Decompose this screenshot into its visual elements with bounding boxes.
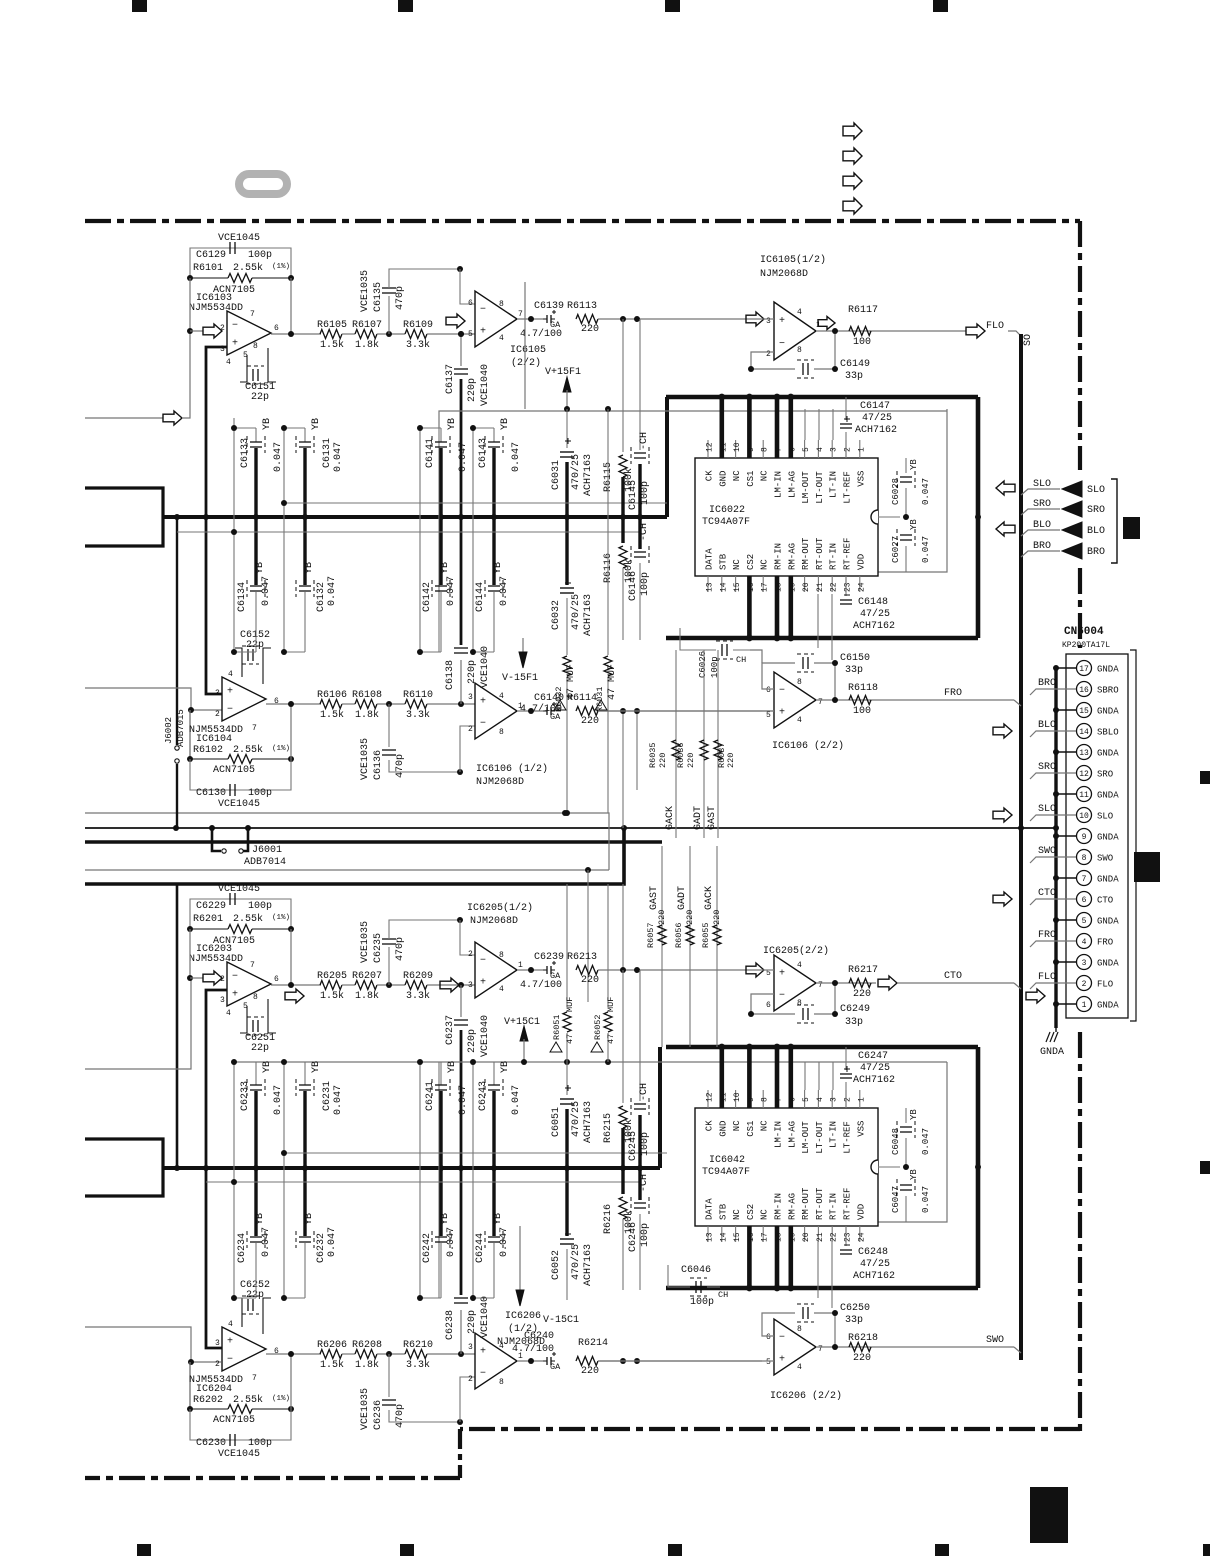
svg-text:0.047: 0.047 [273,1085,284,1115]
svg-text:6: 6 [274,324,279,333]
svg-text:IC6204: IC6204 [196,1384,232,1395]
cap C6047 YB [900,1184,912,1186]
cap C6144 [492,517,495,585]
svg-text:BRO: BRO [1033,541,1051,552]
svg-text:R6214: R6214 [578,1338,608,1349]
svg-text:4: 4 [797,1363,802,1372]
svg-text:GACK: GACK [665,806,676,830]
resistor R6206 [320,1350,342,1359]
svg-text:IC6205(1/2): IC6205(1/2) [467,902,533,914]
svg-text:1.8k: 1.8k [355,1359,379,1371]
svg-text:(1%): (1%) [272,1395,290,1403]
svg-text:4: 4 [816,1097,825,1102]
svg-text:47: 47 [606,1034,616,1044]
svg-text:33p: 33p [845,371,863,382]
svg-text:2: 2 [844,447,853,452]
svg-text:220: 220 [581,1366,599,1377]
svg-text:C6047: C6047 [891,1186,901,1213]
svg-text:47 MUF: 47 MUF [607,664,618,700]
svg-text:+: + [779,968,785,979]
cap C6241 [420,1061,441,1063]
net GACK lower [716,846,718,1047]
bus mid y828 [85,827,1056,829]
svg-text:2: 2 [220,324,225,333]
svg-text:−: − [480,1369,486,1380]
rail y409 upper [439,411,947,428]
resistor R6055 220 [713,925,721,945]
svg-text:18: 18 [775,1232,784,1242]
feedback C6249 [751,994,795,1014]
svg-text:21: 21 [816,582,825,592]
resistor R6205 [320,981,342,990]
svg-text:2: 2 [220,975,225,984]
svg-text:18: 18 [775,582,784,592]
op-amp IC6105 2/2 [475,291,517,347]
svg-text:GA: GA [550,320,561,330]
svg-text:C6130: C6130 [196,788,226,799]
svg-text:2: 2 [468,1375,473,1384]
svg-text:V-15C1: V-15C1 [543,1315,579,1326]
cap C6031 electrolytic [566,409,568,448]
svg-text:C6243: C6243 [478,1081,489,1111]
svg-text:16: 16 [1079,686,1089,695]
svg-text:SWO: SWO [986,1335,1004,1346]
svg-text:LT-REF: LT-REF [843,1121,853,1153]
svg-text:GA: GA [550,971,561,981]
svg-text:SLO: SLO [1087,485,1105,496]
svg-text:7: 7 [250,961,255,970]
bus upper y517 thick [163,515,667,519]
svg-text:4: 4 [228,670,233,679]
svg-text:V+15F1: V+15F1 [545,367,581,378]
svg-text:FLO: FLO [986,321,1004,332]
svg-text:6: 6 [274,697,279,706]
svg-text:19: 19 [788,1232,797,1242]
svg-text:C6247: C6247 [858,1051,888,1062]
svg-text:SLO: SLO [1033,479,1051,490]
svg-text:100: 100 [853,706,871,717]
resistor R6109 [405,330,427,339]
svg-text:RT-REF: RT-REF [843,1188,853,1220]
svg-text:V+15C1: V+15C1 [504,1017,540,1028]
svg-text:GNDA: GNDA [1097,875,1119,885]
svg-text:SBLO: SBLO [1097,728,1119,738]
svg-text:R6109: R6109 [403,320,433,331]
svg-text:GNDA: GNDA [1097,959,1119,969]
svg-text:4: 4 [226,358,231,367]
svg-text:5: 5 [802,1097,811,1102]
svg-text:ACN7105: ACN7105 [213,765,255,776]
svg-text:1: 1 [857,447,866,452]
svg-text:VSS: VSS [856,1121,866,1137]
svg-text:470p: 470p [395,1404,406,1428]
svg-text:2: 2 [468,725,473,734]
svg-text:−: − [232,321,238,332]
connector pin 7 [1077,871,1092,886]
svg-text:ACH7162: ACH7162 [853,1271,895,1282]
svg-text:VCE1045: VCE1045 [218,1449,260,1460]
svg-text:C6229: C6229 [196,901,226,912]
svg-text:CH: CH [736,655,746,665]
rail y1062 lower [234,1061,947,1063]
svg-text:0.047: 0.047 [446,1227,457,1257]
svg-text:8: 8 [1082,854,1087,863]
svg-text:7: 7 [775,1097,784,1102]
IC IC6042 TC94A07F [666,1045,978,1050]
svg-text:ACH7163: ACH7163 [583,1244,594,1286]
svg-text:10: 10 [733,442,742,452]
svg-text:17: 17 [761,1232,770,1242]
svg-text:LT-IN: LT-IN [829,471,839,498]
resistor R6056 220 [686,925,694,945]
svg-text:YB: YB [909,1109,919,1120]
cap C6132 [303,517,306,585]
svg-text:1.8k: 1.8k [355,709,379,721]
svg-text:−: − [480,304,486,315]
svg-text:1: 1 [857,1097,866,1102]
svg-text:4: 4 [797,308,802,317]
svg-text:23: 23 [844,1232,853,1242]
svg-text:220: 220 [712,910,722,925]
svg-text:RT-OUT: RT-OUT [815,537,825,570]
svg-text:R6218: R6218 [848,1333,878,1344]
left stub connector box lower [85,1139,163,1196]
svg-text:C6150: C6150 [840,653,870,664]
svg-text:9: 9 [747,447,756,452]
svg-text:NC: NC [760,1209,770,1220]
svg-text:GNDA: GNDA [1040,1047,1064,1058]
svg-text:24: 24 [857,582,866,592]
cap C6238 220p [460,1310,462,1354]
svg-text:C6236: C6236 [373,1400,384,1430]
svg-text:R6206: R6206 [317,1340,347,1351]
svg-text:C6240: C6240 [524,1331,554,1342]
net GACK upper [675,650,677,838]
svg-text:−: − [779,991,785,1002]
connector pin 13 [1077,745,1092,760]
connector pin 9 [1077,829,1092,844]
svg-text:IC6022: IC6022 [709,505,745,516]
svg-text:+: + [227,687,233,698]
svg-text:+: + [232,338,238,349]
svg-text:VDD: VDD [856,554,866,570]
svg-text:-CH: -CH [639,1083,650,1101]
wire pins RT lower [817,1242,819,1298]
svg-text:−: − [232,972,238,983]
svg-text:470/25: 470/25 [570,1244,582,1280]
svg-text:GNDA: GNDA [1097,791,1119,801]
svg-text:(2/2): (2/2) [511,357,541,369]
svg-text:7: 7 [252,1374,257,1383]
svg-text:C6052: C6052 [551,1250,562,1280]
cap C6135 470p feedback [388,296,390,334]
svg-text:220: 220 [581,716,599,727]
svg-text:NJM2068D: NJM2068D [470,916,518,927]
svg-text:FLO: FLO [1097,980,1113,990]
svg-text:6: 6 [1082,896,1087,905]
op-amp IC6104 [222,677,266,721]
svg-text:3: 3 [215,689,220,698]
svg-text:2.55k: 2.55k [233,262,263,274]
cap C6234 [254,1168,257,1236]
svg-text:C6137: C6137 [445,364,456,394]
resistor R6036 220 [700,740,708,760]
svg-text:3: 3 [468,693,473,702]
svg-text:C6147: C6147 [860,401,890,412]
svg-text:R6210: R6210 [403,1340,433,1351]
wire into IC6105 pin3 [746,312,764,326]
svg-text:220p: 220p [467,660,478,684]
svg-text:220: 220 [685,910,695,925]
svg-text:CK: CK [705,1120,715,1131]
cap C6032 electrolytic [565,517,568,585]
wire out stage2 B [517,710,543,712]
svg-text:(1%): (1%) [272,914,290,922]
fusible resistor R6051 47 MUF top [566,884,568,1007]
svg-text:IC6105: IC6105 [510,345,546,356]
svg-text:GACK: GACK [704,886,715,910]
svg-text:15: 15 [733,1232,742,1242]
svg-text:R6101: R6101 [193,263,223,274]
svg-text:FRO: FRO [944,688,962,699]
svg-text:0.047: 0.047 [458,442,469,472]
svg-text:C6132: C6132 [316,582,327,612]
svg-text:C6134: C6134 [237,582,248,612]
svg-text:GNDA: GNDA [1097,833,1119,843]
svg-text:GAST: GAST [707,806,718,830]
svg-text:3: 3 [830,1097,839,1102]
cap C6138 220p [460,660,462,704]
svg-text:470/25: 470/25 [570,1101,582,1137]
svg-text:0.047: 0.047 [327,576,338,606]
border bottom left [85,1476,460,1480]
net GADT lower [689,846,691,1047]
resistor R6209 [405,981,427,990]
wire pins RT upper [817,594,819,648]
connector CN6004 outline [1066,654,1128,1018]
svg-text:6: 6 [766,686,771,695]
input wire row D [85,1327,221,1362]
vertical 623 mid segments [622,711,624,828]
fusible resistor R6052 47 MUF top [607,884,609,1007]
cap C6243 [473,1061,494,1063]
svg-text:5: 5 [766,711,771,720]
svg-text:C6231: C6231 [322,1081,333,1111]
svg-text:C6249: C6249 [840,1004,870,1015]
cap C6142 [439,517,442,585]
svg-text:YB: YB [500,418,511,430]
cap C6237 220p [460,985,462,1017]
net SRO to pin12 [1030,773,1076,779]
wire IC6203 out [271,984,321,986]
svg-text:3: 3 [220,345,225,354]
cap C6147 electrolytic [845,397,847,420]
cap C6139 GA [546,315,548,323]
svg-text:R6056: R6056 [674,922,684,948]
border step [458,1429,462,1478]
svg-text:NC: NC [760,470,770,481]
svg-text:220p: 220p [467,378,478,402]
svg-text:-CH: -CH [639,523,650,541]
op-amp IC6203 [227,962,271,1006]
svg-text:9: 9 [747,1097,756,1102]
svg-text:GADT: GADT [677,886,688,910]
svg-text:16: 16 [747,1232,756,1242]
wire IC6105 out FLO [816,330,966,332]
svg-text:−: − [227,704,233,715]
svg-text:47: 47 [565,1034,575,1044]
thin y532 link [177,531,640,533]
bus lower y1168 thick [163,1166,660,1170]
svg-text:CTO: CTO [1038,888,1056,899]
svg-text:0.047: 0.047 [458,1085,469,1115]
svg-text:FRO: FRO [1038,930,1056,941]
svg-text:17: 17 [1079,665,1089,674]
svg-text:C6026: C6026 [698,651,708,678]
svg-text:−: − [480,719,486,730]
svg-text:100: 100 [853,337,871,348]
svg-text:6: 6 [274,1347,279,1356]
registration marks bottom [137,1544,151,1556]
svg-text:GND: GND [718,471,728,487]
svg-text:RT-OUT: RT-OUT [815,1187,825,1220]
svg-text:CS2: CS2 [746,1204,756,1220]
svg-text:SLO: SLO [1038,804,1056,815]
svg-text:C6139: C6139 [534,301,564,312]
svg-text:7: 7 [250,310,255,319]
svg-text:6: 6 [788,447,797,452]
connector pin 14 [1077,724,1092,739]
svg-text:IC6106 (1/2): IC6106 (1/2) [476,763,548,775]
svg-text:47/25: 47/25 [860,608,890,620]
svg-text:LT-OUT: LT-OUT [815,471,825,504]
cap C6235 470p feedback [388,947,390,985]
right edge half marks [1200,771,1210,784]
svg-text:22: 22 [830,582,839,592]
svg-text:C6135: C6135 [373,282,384,312]
wire below C6052 [566,1290,568,1300]
svg-text:1.5k: 1.5k [320,1359,344,1371]
svg-text:+: + [480,696,486,707]
op-amp IC6206 2/2 [774,1319,816,1375]
svg-text:15: 15 [733,582,742,592]
svg-text:R6032: R6032 [554,686,564,712]
svg-text:5: 5 [1082,917,1087,926]
svg-text:YB: YB [262,418,273,430]
connector pin 16 [1077,682,1092,697]
border bottom right [460,1427,1080,1431]
svg-text:RM-IN: RM-IN [774,1193,784,1220]
svg-text:−: − [779,1332,785,1343]
svg-text:0.047: 0.047 [921,478,931,505]
svg-text:C6143: C6143 [478,438,489,468]
connector pin 8 [1077,850,1092,865]
cap C6247 electrolytic [845,1047,847,1070]
svg-text:16: 16 [747,582,756,592]
svg-text:47 MUF: 47 MUF [566,664,577,700]
resistor R6037 220 [714,740,722,760]
svg-text:VCE1035: VCE1035 [360,1388,371,1430]
cap C6051 electrolytic [566,1062,568,1095]
cap C6244 [492,1168,495,1236]
connector pin 11 [1077,787,1092,802]
svg-text:15: 15 [1079,707,1089,716]
svg-text:LM-AG: LM-AG [787,1121,797,1148]
svg-text:SRO: SRO [1087,505,1105,516]
cap C6233 [234,1061,256,1063]
svg-text:9: 9 [1082,833,1087,842]
resistor R6216 / cap C6246 column [621,1168,624,1194]
svg-text:2: 2 [1082,980,1087,989]
svg-text:6: 6 [788,1097,797,1102]
wire IC6204 out [266,1353,321,1355]
svg-text:220p: 220p [467,1310,478,1334]
svg-text:C6149: C6149 [840,359,870,370]
svg-text:2: 2 [844,1097,853,1102]
net BLO to pin14 [993,724,1012,738]
cap C6052 electrolytic [565,1168,568,1236]
feedback C6150 [762,663,795,689]
svg-text:+: + [779,316,785,327]
svg-text:R6051: R6051 [552,1014,562,1040]
svg-text:C6246: C6246 [628,1222,639,1252]
svg-text:7: 7 [818,1345,823,1354]
resistor R6108 [355,700,377,709]
svg-text:ACH7163: ACH7163 [583,1101,594,1143]
svg-text:0.047: 0.047 [921,1128,931,1155]
svg-text:0.047: 0.047 [499,1227,510,1257]
svg-text:22: 22 [830,1232,839,1242]
wire out stage2 D [517,1360,543,1362]
svg-text:7: 7 [818,981,823,990]
resistor R6115 / cap C6145 column [622,319,624,452]
cap C6133 [234,427,256,429]
svg-text:RM-IN: RM-IN [774,543,784,570]
svg-text:R6201: R6201 [193,914,223,925]
svg-text:19: 19 [788,582,797,592]
svg-text:BLO: BLO [1038,720,1056,731]
svg-text:R6055: R6055 [701,922,711,948]
svg-text:12: 12 [706,1092,715,1102]
svg-text:GADT: GADT [693,806,704,830]
svg-text:6: 6 [468,299,473,308]
cap C6239 GA [546,966,548,974]
svg-text:4: 4 [499,334,504,343]
svg-text:1.8k: 1.8k [355,990,379,1002]
svg-text:C6232: C6232 [316,1233,327,1263]
svg-text:YB: YB [440,1213,451,1225]
cap C6148 electrolytic [845,576,847,596]
svg-text:8: 8 [499,951,504,960]
svg-text:C6133: C6133 [240,438,251,468]
svg-text:100p: 100p [690,1297,714,1308]
rail right box lower [878,1062,947,1222]
connector pin 5 [1077,913,1092,928]
off-page flag BLO [996,522,1015,536]
svg-text:VCE1045: VCE1045 [218,233,260,244]
svg-text:RM-AG: RM-AG [787,1193,797,1220]
svg-text:-CH: -CH [639,432,650,450]
svg-text:C6148: C6148 [858,597,888,608]
J6001 jumper [212,828,221,851]
svg-text:J6002: J6002 [164,717,174,744]
net SWO to pin8 [1030,857,1076,863]
svg-text:NC: NC [732,1209,742,1220]
svg-text:R6036: R6036 [676,742,686,768]
left stub connector box upper [85,488,163,546]
input wire row C [85,978,191,1069]
svg-text:C6142: C6142 [422,582,433,612]
